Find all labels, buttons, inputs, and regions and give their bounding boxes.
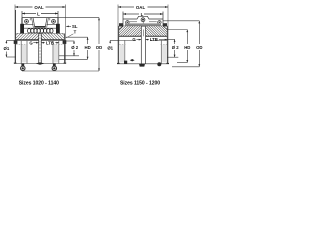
seal block left xyxy=(20,24,24,34)
OD dimension vertical xyxy=(196,21,202,67)
hub flange hatch right xyxy=(146,26,168,36)
hub flange hatch left xyxy=(16,34,39,40)
dia1 dimension xyxy=(107,40,113,50)
center bolt xyxy=(141,18,145,22)
svg-text:HD: HD xyxy=(184,45,190,50)
bore line right b xyxy=(58,41,60,64)
cover right edge xyxy=(57,18,59,28)
grid dash row xyxy=(125,23,161,25)
seal dark right xyxy=(163,23,167,26)
hub inner face left xyxy=(38,34,40,64)
bore hidden top right xyxy=(161,44,168,46)
hub outer face right xyxy=(166,26,168,64)
cover mid line left xyxy=(129,21,137,23)
dia2 dimension xyxy=(71,41,79,56)
flange step block right xyxy=(63,40,67,44)
grid cavity top line xyxy=(23,27,58,29)
hub outer face right xyxy=(63,34,65,64)
bore smear right xyxy=(162,45,166,63)
svg-text:Sizes 1020 - 1140: Sizes 1020 - 1140 xyxy=(19,81,59,87)
centerline xyxy=(117,63,169,65)
HD top reference line xyxy=(66,36,88,38)
HD dimension vertical xyxy=(184,30,190,63)
bore hidden top right xyxy=(53,44,64,46)
cover left edge xyxy=(21,18,23,28)
cover mid line right xyxy=(149,21,157,23)
centerline xyxy=(14,63,66,65)
svg-text:HD: HD xyxy=(84,45,90,50)
dia2 top reference line xyxy=(66,40,75,42)
bolt right xyxy=(52,20,56,24)
SL label xyxy=(66,24,78,29)
center dash in gap xyxy=(142,30,144,37)
svg-text:OD: OD xyxy=(196,45,202,50)
centerline diamond xyxy=(130,59,135,61)
bottom lug right bolt xyxy=(52,66,56,70)
L dimension line xyxy=(22,11,58,18)
centerline diamond xyxy=(36,62,44,65)
bore line left xyxy=(124,40,126,63)
dia2 bottom reference line xyxy=(167,56,178,58)
svg-text:Ø 2: Ø 2 xyxy=(71,45,79,50)
LTB label and arrows xyxy=(41,40,59,45)
svg-text:Ø 2: Ø 2 xyxy=(172,45,180,50)
bore line right xyxy=(160,40,162,63)
HD bottom reference line xyxy=(177,62,187,64)
bore smear left xyxy=(120,45,124,63)
bolt boss ticks xyxy=(29,18,31,20)
OAL dimension line xyxy=(118,5,168,64)
hub barrel top left xyxy=(119,39,136,41)
svg-text:OD: OD xyxy=(96,45,102,50)
bore line left b xyxy=(26,41,28,64)
HD dimension vertical xyxy=(84,37,90,59)
grid spring loop chain xyxy=(28,29,53,34)
bore smear right xyxy=(54,45,58,63)
bottom blob right xyxy=(157,62,161,66)
G label and arrow xyxy=(29,40,38,45)
dia2 dimension xyxy=(172,40,180,58)
OD top reference line xyxy=(163,20,199,22)
HD bottom reference line xyxy=(59,58,88,60)
hub barrel top right xyxy=(41,40,64,42)
face foot left xyxy=(117,62,120,64)
center gap dashed line xyxy=(39,34,41,64)
OAL dimension line xyxy=(15,5,66,64)
OD bottom reference line xyxy=(172,66,199,68)
HD top reference line xyxy=(167,29,187,31)
svg-text:Ø1: Ø1 xyxy=(4,46,10,51)
T label and leader xyxy=(66,29,76,37)
hub barrel top left xyxy=(16,40,39,42)
bolt left xyxy=(25,20,29,24)
svg-text:LTB: LTB xyxy=(46,40,54,45)
svg-text:OAL: OAL xyxy=(136,5,146,10)
seal dark left xyxy=(119,23,123,26)
OD reference line top xyxy=(58,17,99,19)
side bolt left xyxy=(126,21,129,24)
svg-text:OAL: OAL xyxy=(34,5,44,10)
LTB label and arrows xyxy=(146,37,168,42)
bore smear left xyxy=(22,45,26,63)
face foot right xyxy=(64,62,67,64)
L dimension line xyxy=(123,12,163,20)
bottom lug left bolt xyxy=(21,66,25,70)
svg-text:L: L xyxy=(37,11,40,16)
hub inner face left xyxy=(140,26,142,64)
hub barrel top right xyxy=(150,39,167,41)
dia2 top reference line xyxy=(167,39,175,41)
hub flange hatch right xyxy=(41,34,64,40)
bottom blob left xyxy=(124,61,127,64)
face foot right xyxy=(166,62,169,64)
cover top edge xyxy=(22,17,58,19)
svg-text:T: T xyxy=(74,29,77,34)
OD dimension vertical xyxy=(96,18,102,71)
bottom boss xyxy=(139,64,145,67)
hub inner face right xyxy=(40,34,42,64)
dia1 dimension xyxy=(4,41,10,57)
svg-text:Sizes 1150 - 1200: Sizes 1150 - 1200 xyxy=(120,81,160,87)
seal block right xyxy=(56,24,60,34)
dia2 bottom reference line xyxy=(59,55,79,57)
hub flange hatch left xyxy=(119,26,142,36)
cover bottom / flange top line xyxy=(119,25,168,27)
bottom lug right stem xyxy=(53,64,56,67)
hub inner face right xyxy=(145,26,147,64)
OD bottom reference line xyxy=(22,70,99,72)
face foot left xyxy=(14,62,17,64)
svg-text:Ø1: Ø1 xyxy=(107,46,113,51)
dia1 bottom reference line xyxy=(6,56,15,58)
dia1 top reference line xyxy=(6,40,15,42)
bore hidden top left xyxy=(119,44,125,46)
bore hidden top left xyxy=(16,44,27,46)
cover seal lip lines xyxy=(22,24,34,26)
bore line right a xyxy=(52,41,54,64)
bottom lug left stem xyxy=(21,64,24,67)
side bolt right xyxy=(158,21,161,24)
cover outline with center bump xyxy=(123,16,163,19)
svg-text:LTB: LTB xyxy=(150,37,158,42)
flange bottom line xyxy=(119,35,142,37)
cover center dip xyxy=(33,18,47,27)
flange bottom line xyxy=(16,39,39,41)
G label and arrow xyxy=(132,37,141,42)
hub outer face left xyxy=(15,10,17,64)
bore line left a xyxy=(20,41,22,64)
dia1 reference line xyxy=(110,39,119,41)
flange step block left xyxy=(14,40,18,44)
flange separator line xyxy=(16,33,65,35)
hub outer face left xyxy=(118,26,120,64)
center line above xyxy=(142,22,144,26)
